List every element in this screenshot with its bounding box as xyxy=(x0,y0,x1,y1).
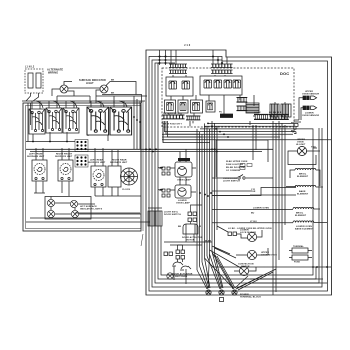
bus long line7 xyxy=(162,139,331,141)
switch surface unit 4 xyxy=(87,107,109,135)
wire hi-limit loop xyxy=(288,148,320,165)
wire top drops to connector P1 xyxy=(160,50,177,65)
svg-text:SURFACE UNIT: SURFACE UNIT xyxy=(110,161,128,164)
svg-text:LIGHT: LIGHT xyxy=(86,82,94,85)
wire lamp leads xyxy=(159,168,196,192)
heater lower bake element xyxy=(293,221,314,223)
lamp door lock indicator xyxy=(167,273,173,279)
motor upper lock xyxy=(247,250,256,259)
transformer winding coil L2 xyxy=(281,104,291,117)
wire mid horizontal 1 xyxy=(212,190,252,192)
wire stub ticks xyxy=(158,168,163,190)
relay terminal pairs actuator xyxy=(188,212,197,222)
svg-text:OVEN LAMP: OVEN LAMP xyxy=(176,202,190,205)
box oven lamp 2 xyxy=(175,185,191,198)
wire doc internal drops xyxy=(169,75,285,119)
transformer winding box K xyxy=(246,103,259,113)
switch oven door light xyxy=(212,177,273,179)
connector stack E row1 xyxy=(237,98,248,103)
wire indicator feed lower xyxy=(57,96,147,103)
node dots switch bus xyxy=(32,141,68,143)
wire left inner verticals xyxy=(28,103,31,142)
relay small box A xyxy=(165,100,176,113)
clock motor circle xyxy=(121,168,138,185)
wire bus step labels right xyxy=(291,122,296,132)
relay alt 2 xyxy=(36,73,41,88)
ground lug xyxy=(220,298,224,302)
wire lamp box feeds xyxy=(180,149,186,185)
lamp surface indicator left xyxy=(60,85,68,93)
DOC control board dashed box xyxy=(162,68,294,127)
lamp pilot 2 xyxy=(70,200,77,207)
wire bottom line 6 xyxy=(161,226,313,275)
svg-text:THERMAL: THERMAL xyxy=(293,245,304,248)
alternate wiring dashed box xyxy=(25,69,43,93)
wire doc right drops xyxy=(250,121,256,160)
thermostat hi-limit upper xyxy=(297,146,306,155)
relay alt 1 xyxy=(28,73,33,88)
relay comb 6 xyxy=(233,80,241,88)
wire bottom lamp motor circuit xyxy=(250,279,327,283)
relay small comb D xyxy=(208,103,213,110)
box warmer xyxy=(108,166,121,187)
wire inner verticals right of switches xyxy=(134,96,140,149)
heater bake element xyxy=(295,185,316,187)
lamp pilot 1 xyxy=(47,199,54,206)
wire bottom line 5 xyxy=(158,63,316,279)
wire fan to terminals xyxy=(197,252,235,289)
wire long cross bus A xyxy=(26,148,273,150)
svg-text:OVEN SENSOR: OVEN SENSOR xyxy=(302,115,319,117)
terminal N xyxy=(219,290,224,295)
svg-text:BK: BK xyxy=(291,122,295,124)
wire upper lock leads xyxy=(236,248,268,255)
svg-text:W-BK UPPER OVEN: W-BK UPPER OVEN xyxy=(226,161,248,163)
wire switch bus row xyxy=(26,132,108,142)
svg-text:LT BU: LT BU xyxy=(250,221,257,223)
node dot line6 xyxy=(312,266,314,268)
wire right feeds to terminal block xyxy=(235,269,276,290)
relay small comb B xyxy=(180,103,186,111)
terminal L2 xyxy=(232,290,237,295)
heater broil element xyxy=(295,168,316,170)
relay latch contacts left pair xyxy=(164,252,173,256)
burner element LF xyxy=(32,160,47,181)
svg-text:BU: BU xyxy=(291,131,295,133)
lamp pilot 3 xyxy=(47,210,54,217)
burner element LR xyxy=(91,166,106,187)
svg-text:W-BK: W-BK xyxy=(205,241,212,243)
relay small comb A xyxy=(167,103,174,111)
relay terminal pair lamp1 xyxy=(162,167,170,175)
switch latch 1 xyxy=(172,262,183,266)
bus below DOC line3 xyxy=(200,129,313,267)
svg-text:BU: BU xyxy=(251,213,255,215)
svg-text:R-BK LIGHT SW: R-BK LIGHT SW xyxy=(226,164,243,166)
svg-text:TERMINAL BLOCK: TERMINAL BLOCK xyxy=(240,296,261,299)
connector P1 row2 xyxy=(169,70,187,74)
svg-text:J 1 2: J 1 2 xyxy=(184,43,191,47)
motor convection xyxy=(239,266,248,275)
wire oven bundle verticals xyxy=(212,121,217,254)
bus below DOC line4 xyxy=(196,131,296,133)
switch surface unit 1 xyxy=(29,109,45,134)
wire loop 2 xyxy=(149,57,328,292)
svg-text:LIGHT SWITCH: LIGHT SWITCH xyxy=(223,181,240,183)
box thermal fuse cluster xyxy=(289,248,312,260)
wire mid left verticals xyxy=(141,101,143,246)
wire bundle B bends xyxy=(210,226,242,268)
svg-text:1M 1L 1H 2M 2L: 1M 1L 1H 2M 2L xyxy=(163,113,181,115)
svg-text:INDICATOR LIGHTS: INDICATOR LIGHTS xyxy=(80,208,103,211)
connector P7 xyxy=(269,115,289,120)
wire doc bottom left drops xyxy=(163,121,202,143)
relay box K3-K6 xyxy=(200,76,242,95)
wire outer loop border xyxy=(146,50,332,295)
wire bottom mesh blob xyxy=(178,158,190,161)
box oven lamp 1 xyxy=(175,162,192,177)
switch surface unit 2 xyxy=(46,108,62,133)
wire right lower bus xyxy=(212,266,331,268)
svg-text:FUSE: FUSE xyxy=(294,262,300,264)
svg-text:LOCK MOTOR: LOCK MOTOR xyxy=(240,232,256,234)
lamp oven 2 xyxy=(178,188,186,196)
node dots mid bundle xyxy=(199,192,212,197)
terminal block TB1 xyxy=(75,140,88,152)
label text block right of lamps xyxy=(226,161,248,172)
svg-text:BK: BK xyxy=(178,226,182,228)
wire top drops to connector P2 xyxy=(213,50,227,64)
box lock terminal pair xyxy=(228,232,237,236)
wire switch top feeds xyxy=(22,101,145,109)
lamp oven 1 xyxy=(178,167,187,176)
relay small comb C xyxy=(193,103,200,111)
wire loop 4 xyxy=(155,63,319,283)
wire right bundle verticals xyxy=(273,121,285,295)
wire lower bake line xyxy=(212,222,327,224)
wire sensor leads xyxy=(294,98,303,122)
node dots right bus xyxy=(316,266,328,268)
wire bake return xyxy=(250,187,323,195)
bus below DOC line2 xyxy=(204,125,296,127)
connector P4 xyxy=(186,116,200,120)
wire left block bottom buses xyxy=(26,193,150,222)
wire middle bundle verticals xyxy=(197,123,210,270)
node dots connector P2 xyxy=(212,56,223,65)
scan noise texture xyxy=(18,38,336,304)
relay small box C xyxy=(191,100,203,113)
svg-text:ELEMENT: ELEMENT xyxy=(297,176,309,178)
bus below DOC line1 xyxy=(208,122,298,124)
svg-text:GY COMMON: GY COMMON xyxy=(226,170,241,172)
svg-text:BU-BK DOOR SW: BU-BK DOOR SW xyxy=(226,167,245,169)
svg-text:DOOR SWITCH: DOOR SWITCH xyxy=(164,214,181,216)
relay comb 4 xyxy=(214,80,222,88)
switch surface unit 3 xyxy=(63,108,79,133)
svg-text:TOD: TOD xyxy=(311,147,316,149)
relay box K1 K2 xyxy=(166,77,193,96)
sensor upper xyxy=(303,96,317,100)
svg-text:HI-LIMIT: HI-LIMIT xyxy=(296,144,306,146)
node dots bundle B cross xyxy=(211,148,218,152)
connector stack E row2 xyxy=(237,106,248,111)
wire broil feed xyxy=(212,170,320,196)
svg-text:MOTOR: MOTOR xyxy=(186,240,195,242)
relay comb 1 xyxy=(169,81,177,89)
connector P3 bottom left xyxy=(162,115,185,119)
wire latch second row xyxy=(170,244,202,246)
wire latch leads xyxy=(164,242,212,284)
wire lower broil line xyxy=(212,208,320,211)
svg-text:LO BK - LOWER OVEN BK-UPPER: LO BK - LOWER OVEN BK-UPPER OVEN xyxy=(228,228,272,230)
node dots top corner xyxy=(159,56,167,65)
wire burner leads xyxy=(36,148,118,196)
svg-text:OVEN LAMP: OVEN LAMP xyxy=(177,179,191,182)
wire indicator link xyxy=(52,82,142,104)
connector P1 xyxy=(169,64,187,68)
svg-text:SURFACE UNIT: SURFACE UNIT xyxy=(55,155,73,158)
node dots cross bus xyxy=(145,148,157,152)
relay terminal pair lamp2 xyxy=(162,189,170,197)
svg-text:ELEMENT: ELEMENT xyxy=(297,194,309,196)
wire actuator leads xyxy=(186,205,202,242)
svg-text:LO BK W R: LO BK W R xyxy=(269,112,282,114)
connector P5 dense xyxy=(220,114,233,118)
svg-text:L1 N L2: L1 N L2 xyxy=(25,66,35,69)
wire switch feed arcs xyxy=(36,101,127,108)
sensor lower xyxy=(303,106,317,110)
lamp surface indicator right xyxy=(100,85,108,93)
wire mid horizontal 2 xyxy=(212,195,250,197)
relay comb 2 xyxy=(182,81,190,89)
heater lower broil element xyxy=(293,207,314,209)
svg-text:OR: OR xyxy=(252,191,256,193)
transformer spark module xyxy=(148,208,162,226)
relay comb 3 xyxy=(204,80,212,88)
wire pilot lamp links xyxy=(51,197,141,215)
switch oven door light contacts xyxy=(238,175,245,180)
svg-text:CONV: CONV xyxy=(254,112,261,114)
svg-text:BK: BK xyxy=(111,93,115,95)
node dots inner verticals xyxy=(133,116,141,123)
wire bus right steps xyxy=(292,123,298,133)
lamp pilot 4 xyxy=(71,210,78,217)
wire long cross bus B xyxy=(30,151,262,153)
burner element RF xyxy=(58,160,73,181)
svg-text:ELEMENT: ELEMENT xyxy=(295,215,307,217)
svg-text:BK: BK xyxy=(111,80,115,82)
svg-text:DOC: DOC xyxy=(280,71,289,76)
relay small box D xyxy=(206,101,215,112)
box door actuator xyxy=(183,224,198,234)
node dots bus xyxy=(207,123,229,138)
connector P2 row2 xyxy=(211,70,233,74)
box pilot lamp group xyxy=(45,197,91,220)
switch surface unit 5 xyxy=(110,107,132,135)
box upper oven enclosure xyxy=(163,128,268,177)
bus below DOC line5 xyxy=(162,133,293,135)
node dots stub ticks xyxy=(160,167,162,191)
svg-text:CLOCK: CLOCK xyxy=(122,189,131,191)
relay comb 5 xyxy=(224,80,232,88)
terminal block TB2 xyxy=(75,155,88,167)
box left control inner xyxy=(26,106,142,229)
relay tiny boxes legend xyxy=(240,164,252,170)
connector P2 xyxy=(211,64,233,68)
terminal L1 xyxy=(206,290,211,295)
wire lock motor leads xyxy=(237,230,263,238)
wire alt box leads xyxy=(26,93,39,101)
connector P6 xyxy=(254,115,269,120)
svg-text:WIRING: WIRING xyxy=(48,71,58,75)
switch latch 2 xyxy=(180,266,191,270)
transformer winding coil L1 xyxy=(270,104,279,117)
svg-text:BAKE ELEMENT: BAKE ELEMENT xyxy=(295,228,314,231)
wire loop 3 xyxy=(152,60,322,287)
bus below DOC line6 xyxy=(162,136,280,138)
relay small box B xyxy=(178,100,188,113)
box left control outer xyxy=(23,103,141,231)
wire convection leads xyxy=(234,267,256,271)
svg-text:OVEN SENSOR: OVEN SENSOR xyxy=(302,94,319,96)
motor lower lock xyxy=(247,232,256,241)
relay latch contacts xyxy=(176,250,185,259)
